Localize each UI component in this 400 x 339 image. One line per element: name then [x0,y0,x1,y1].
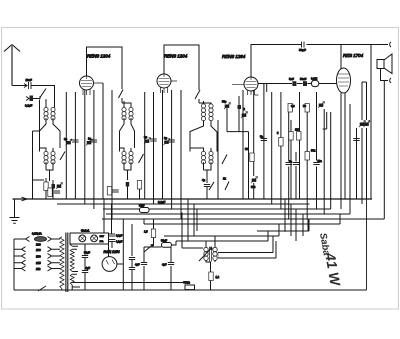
filter cap 50uF [82,256,88,258]
resistor 1,2k [209,272,213,281]
wire heater line [71,282,185,284]
wire tube3 side [258,83,264,85]
connector right mid [390,78,391,83]
wire [104,199,112,248]
rectifier tube RGN1254 [102,257,117,272]
resistor 0,9M oval [311,80,318,86]
wire tube4 anode up [340,45,342,69]
capacitor [168,140,174,142]
svg-text:0,9M: 0,9M [311,77,318,81]
vertical wires mid forest [145,90,181,219]
svg-text:2µ: 2µ [164,136,167,140]
potentiometer [144,245,153,253]
resistor 50k lower [250,153,254,162]
connector right top [390,42,391,47]
trimmer IF-A [224,103,231,110]
svg-text:RENS 1264: RENS 1264 [222,54,246,59]
svg-text:4µF: 4µF [86,266,91,270]
fuse [35,237,47,242]
svg-text:125: 125 [36,261,41,265]
trimmer 3uF [66,139,73,146]
wire return 241 [176,231,268,241]
wire output tr leads [206,236,276,290]
capacitor [286,163,292,165]
vertical wires left forest [66,83,112,219]
trimmer [164,139,171,146]
earth input connector [26,97,29,101]
switch coil 1 [60,152,65,161]
resistor [107,187,111,196]
wire [128,187,140,200]
wire [182,247,203,249]
wire rectifier leads [109,219,124,290]
dial lamp 2 [91,235,98,242]
capacitor under coil1 [52,184,56,189]
wire return 231 [257,219,309,231]
trimmer under coil1 [56,183,63,190]
wire return 224 [144,214,340,224]
svg-text:R: R [243,107,245,111]
tube V3 RENS1264 [244,77,258,91]
wire speaker [371,45,384,200]
coil box 1 antenna coils [44,107,48,120]
svg-text:50n: 50n [318,159,323,163]
capacitor 50pF antenna [29,82,32,89]
capacitor 5nF [292,81,296,86]
switch V1 loop [119,90,124,99]
capacitor 50pF top [302,42,305,48]
cap electrolytic [129,268,135,270]
psu vertical wires [131,224,133,290]
switch band [40,89,46,98]
capacitor earth input [30,96,34,102]
svg-text:1k: 1k [223,177,226,181]
svg-text:0,6/0,3A: 0,6/0,3A [32,232,42,236]
wire left rail [33,100,45,200]
wire tube3 pins [232,85,259,95]
wire [85,244,98,290]
voltage tap rows [14,247,60,271]
svg-text:50nF: 50nF [300,77,307,81]
svg-text:4µF: 4µF [162,263,167,267]
capacitor [293,163,299,165]
svg-text:150: 150 [36,255,41,259]
cap 50nF oval [162,243,172,248]
svg-text:RENS 1204: RENS 1204 [164,54,188,59]
svg-text:10nF: 10nF [26,78,33,82]
capacitor under IF-A [204,185,210,187]
contact dot [45,99,47,101]
transformer core [66,233,68,293]
trimmer [144,138,151,145]
filter cap 4uF b [170,247,172,290]
label Saba 41W [317,231,344,289]
wire coil2 links [120,101,135,180]
capacitor 5nF [261,139,267,141]
wire anode loop V1 [87,47,123,89]
capacitor 50nF [303,81,307,86]
bracket right fuse row [48,237,61,242]
resistor under coil2 [137,181,141,190]
capacitor [150,139,156,141]
wire [60,239,62,290]
capacitor [72,140,78,142]
svg-text:5n: 5n [289,160,292,164]
bus arrow [22,197,28,201]
svg-text:8µ: 8µ [144,135,147,139]
svg-text:3µ: 3µ [64,137,67,141]
capacitor [313,163,319,165]
wire [266,84,268,93]
svg-text:0,3: 0,3 [291,104,295,108]
dial lamp box [70,233,109,244]
af drop wires [182,199,197,248]
wire tube4 leads [331,93,357,214]
IF transformer A [201,104,205,121]
svg-text:1µ: 1µ [88,137,91,141]
resistor 1M [289,132,293,141]
vertical wires AF forest [243,83,327,219]
right border of schematic [366,199,368,290]
svg-text:41 W: 41 W [322,251,344,289]
svg-text:50k: 50k [311,149,316,153]
resistor 1M b [297,132,301,141]
trimmer electrolytic [251,177,258,184]
cap electrolytic [129,258,135,260]
svg-text:0,1µF: 0,1µF [25,104,32,108]
power switch [38,286,46,291]
svg-text:GTY: GTY [100,236,105,238]
resistor under coil1 [44,182,48,191]
resistor 1,5k [151,229,155,238]
trimmer tone 2 [364,121,371,128]
wire [384,80,388,82]
trimmer tone 1 [359,121,366,128]
wire [121,98,123,103]
capacitor IF-A [238,105,242,109]
wire ground drop [14,199,16,217]
wire [198,99,200,103]
power: mains lead left [14,239,22,290]
arrow variable [199,248,212,262]
antenna [4,45,20,86]
speaker [377,60,384,69]
filter cap 4uF a [143,247,145,290]
output transformer [204,247,208,260]
wire anode loop V3 top line [251,45,388,78]
svg-text:50nF: 50nF [139,205,145,208]
wire anode loop V2 [164,45,199,90]
svg-text:5nF: 5nF [289,77,294,81]
filter cap 4uF [82,271,88,273]
svg-text:0,1µF: 0,1µF [158,200,165,204]
power transformer primary winding [60,237,64,289]
capacitor tone [353,139,359,141]
svg-text:RGN 1254: RGN 1254 [104,250,120,254]
resistor variable Rg [241,112,248,119]
tube V1 RENS1204 [80,76,94,90]
svg-text:1,2: 1,2 [216,275,220,279]
coil box 2 oscillator [122,107,126,120]
svg-text:1,5: 1,5 [144,230,148,234]
node dot [284,230,286,232]
bottom bus [14,289,367,291]
svg-text:4µ: 4µ [202,178,205,182]
caps 0,1uF pair [109,234,115,236]
svg-text:RES 1704: RES 1704 [343,53,364,58]
capacitor [112,190,118,192]
trimmer [86,139,93,146]
wire return 236 [164,224,279,236]
svg-text:160: 160 [36,248,41,252]
vertical tone wires [362,82,367,204]
wire [144,247,154,252]
svg-text:RENS 1204: RENS 1204 [87,54,111,59]
svg-text:50: 50 [245,147,248,151]
wire [131,260,133,275]
wire [153,219,155,246]
switch V2 loop [195,90,200,99]
capacitor [91,140,97,142]
box 50nF [140,208,150,213]
main earth bus [13,198,373,200]
svg-text:770Ω: 770Ω [184,281,190,285]
grid line tube V4 [258,83,337,85]
resistor [279,138,283,147]
svg-text:50nF: 50nF [161,239,167,243]
transformer secondary HT [70,249,74,271]
svg-text:0,1µF: 0,1µF [116,241,123,244]
wire [33,96,40,99]
ground [10,218,20,224]
wire secondary taps [72,234,80,290]
svg-text:5: 5 [277,131,279,135]
svg-text:60A: 60A [100,240,104,243]
switch IF-A [222,155,227,165]
svg-text:5n: 5n [260,135,263,139]
svg-text:50p: 50p [222,100,227,104]
wire tube2 pins [161,81,178,93]
svg-text:50pF: 50pF [299,48,306,52]
resistor 0.3M [288,104,292,113]
return bus lines [57,81,384,220]
svg-text:110: 110 [36,267,41,271]
svg-text:0,1µF: 0,1µF [116,235,123,238]
wire [217,253,219,259]
transformer secondary LT [70,274,74,285]
svg-text:500: 500 [251,185,256,189]
transformer secondary heater [70,236,74,246]
dial lamp 1 [79,235,86,242]
svg-text:4µF: 4µF [135,263,140,267]
resistor 770 bias [185,285,195,290]
switch [209,182,214,190]
wire [227,96,249,199]
wire [207,120,218,199]
switch right [225,182,229,191]
wire coil links [40,86,61,182]
connector arrow [24,84,27,88]
resistor 50k [305,104,309,113]
wire IF-A links [190,101,217,183]
svg-text:220: 220 [36,243,41,247]
svg-text:Skalenl.: Skalenl. [81,230,90,233]
switch coil2 [139,154,144,163]
tube V2 RENS1204 [157,74,171,88]
wire [46,178,53,199]
wire [31,85,45,87]
trimmer [318,102,325,109]
bracket left fuse row [22,237,30,242]
staircase verticals [285,199,308,241]
wire antenna lead [12,85,26,87]
svg-text:1M: 1M [295,128,299,132]
capacitor [54,191,60,193]
wire tube1 pins [83,83,103,95]
wire [154,241,177,247]
small parts above bus [48,188,52,197]
resistor [305,152,309,161]
tube V4 RES1704 [337,68,351,93]
capacitor under coil2 [126,182,130,187]
